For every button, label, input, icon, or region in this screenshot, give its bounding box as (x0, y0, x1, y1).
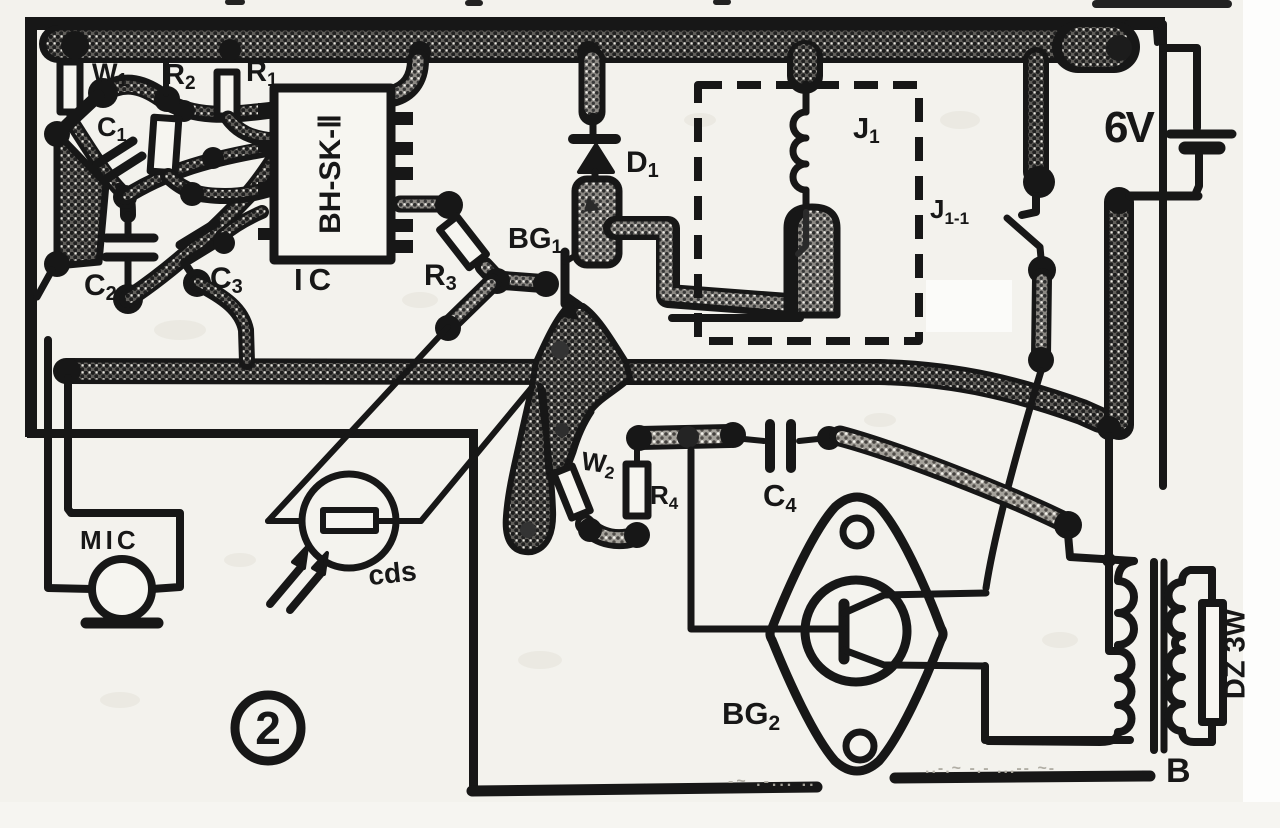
capacitor C3 plates (180, 223, 216, 245)
inductor J1 coil (793, 112, 806, 190)
wire: bus to IC top fat wire (392, 60, 418, 96)
transformer core (1150, 562, 1158, 750)
wire: horizontal line A (left frame to vertical B) (27, 429, 478, 438)
node: bottom bus bar (negative rail) (57, 359, 1100, 420)
wire: R1 to IC (228, 118, 273, 140)
node: bus joint dots (61, 31, 89, 59)
IC pins left (258, 103, 276, 240)
capacitor C1 plates (97, 141, 133, 164)
node: primary top lead junction (1102, 553, 1116, 567)
IC pins right (391, 112, 413, 253)
wire: IC pin to R3 (400, 196, 444, 213)
wire: W2 to R4 bottom gray link (585, 524, 636, 539)
wire: C3 bottom dot and stub (184, 262, 196, 280)
wire: bus down to J1-1 (1023, 60, 1049, 172)
wire: step wire D1 to relay (615, 228, 788, 305)
resistor R2 body (150, 117, 179, 173)
transformer B secondary winding (1169, 570, 1213, 742)
wire: cds left diagonal to R3 (268, 327, 448, 521)
wire: cluster down to bottom bus (197, 283, 247, 362)
transistor BG1 (565, 245, 592, 311)
wire: vertical line B down to bottom (469, 431, 478, 791)
microphone MIC capsule (92, 559, 152, 619)
transformer B primary winding (988, 561, 1134, 742)
svg-text:6V: 6V (1104, 103, 1155, 152)
loudspeaker DZ (1202, 603, 1223, 722)
wire: fat gray collector wire below D1 (575, 179, 619, 265)
svg-text:2: 2 (255, 702, 281, 754)
capacitor C4 plates (765, 424, 775, 468)
diode D1 (573, 134, 616, 144)
BG2 mounting holes (843, 518, 871, 546)
scan remnant marks along very top edge (228, 2, 1228, 4)
transistor BG2 TO-3 outline (770, 497, 943, 771)
BG2 transistor can circle (805, 580, 907, 682)
wire: pot to IC curve (163, 100, 273, 114)
battery 6V (1130, 48, 1232, 196)
wire: C2 long sweep to IC (128, 163, 272, 299)
svg-text:IC: IC (294, 262, 337, 297)
svg-text:B: B (1166, 752, 1191, 790)
wire: bottom line left segment (472, 787, 817, 791)
wire: R3 to BG1 base (484, 266, 549, 284)
wire: BG1 emitter big gray blob (506, 306, 630, 552)
wire: 6V negative vertical gray wire (1097, 188, 1132, 440)
relay J1 dashed box (698, 85, 919, 341)
wire: gray bar above R4 (640, 436, 730, 438)
wire: MIC left lead (48, 340, 92, 589)
wire: cds right diagonal to blob (421, 387, 532, 521)
wire: J1-1 to BG2 collector slant (986, 371, 1041, 588)
tick stub near bus cap (1156, 30, 1157, 43)
wire: bus to MIC (68, 378, 180, 589)
white scan patch (926, 280, 1012, 332)
svg-text:cds: cds (367, 555, 418, 591)
wire: W1 bottom to C1 junction (72, 122, 122, 192)
op-amp IC U1 box BH-SK-II (274, 88, 391, 260)
resistor R1 body (217, 72, 237, 116)
switch J1-1 arm (1007, 218, 1041, 258)
wire: R2 bottom to IC (168, 176, 273, 196)
svg-text:MIC: MIC (80, 525, 140, 555)
svg-text:-~ .-... ..: -~ .-... .. (728, 773, 817, 790)
wire: J1-1 gray segment (1041, 278, 1042, 356)
light arrows (270, 566, 302, 604)
BG2 symbol (839, 604, 850, 659)
wire: emitter to transformer bottom (985, 666, 1130, 740)
wire: frame right vertical (1128, 24, 1163, 486)
resistor R4 body (626, 464, 648, 516)
wire: bottom line right segment (895, 776, 1150, 778)
resistor W1 body (60, 62, 80, 112)
wire: R3 lower gray diagonal (452, 283, 492, 322)
wire: vertical from gray blob to primary tap (1109, 436, 1118, 651)
potentiometer W1 wiper blob (103, 85, 165, 100)
relay core blob (787, 207, 837, 315)
wire: bus to relay coil fat (787, 58, 823, 76)
node: top bus bar (positive rail) (58, 31, 1132, 65)
wire: C1 to C2 junction (123, 193, 128, 215)
photoresistor cds (302, 474, 396, 568)
wire: mid sweep (125, 148, 273, 197)
figure number 2 circled (235, 695, 301, 761)
wire: C4 to right dot (799, 439, 818, 441)
wire: BG2 base line down (691, 450, 806, 629)
resistor R3 body (440, 216, 487, 267)
ground triangle blob (57, 133, 106, 266)
capacitor C2 plates (106, 234, 154, 243)
wire: frame left vertical (25, 17, 37, 437)
wire: pot to triangle top (62, 96, 98, 130)
wire: frame top black line (25, 17, 1165, 30)
svg-text:DZ 3W: DZ 3W (1220, 608, 1252, 699)
faint print remnants bottom (728, 760, 1056, 790)
wire: bus down to D1 (579, 60, 606, 112)
resistor W2 body (554, 466, 591, 518)
wire: elbow from C4 dot to primary top (1068, 534, 1134, 561)
svg-text:BH-SK-Ⅱ: BH-SK-Ⅱ (314, 114, 347, 234)
svg-text:..-.~ -.- ...-- ~-: ..-.~ -.- ...-- ~- (925, 760, 1056, 777)
wire: gray diagonal C4 to transformer elbow (840, 436, 1060, 520)
